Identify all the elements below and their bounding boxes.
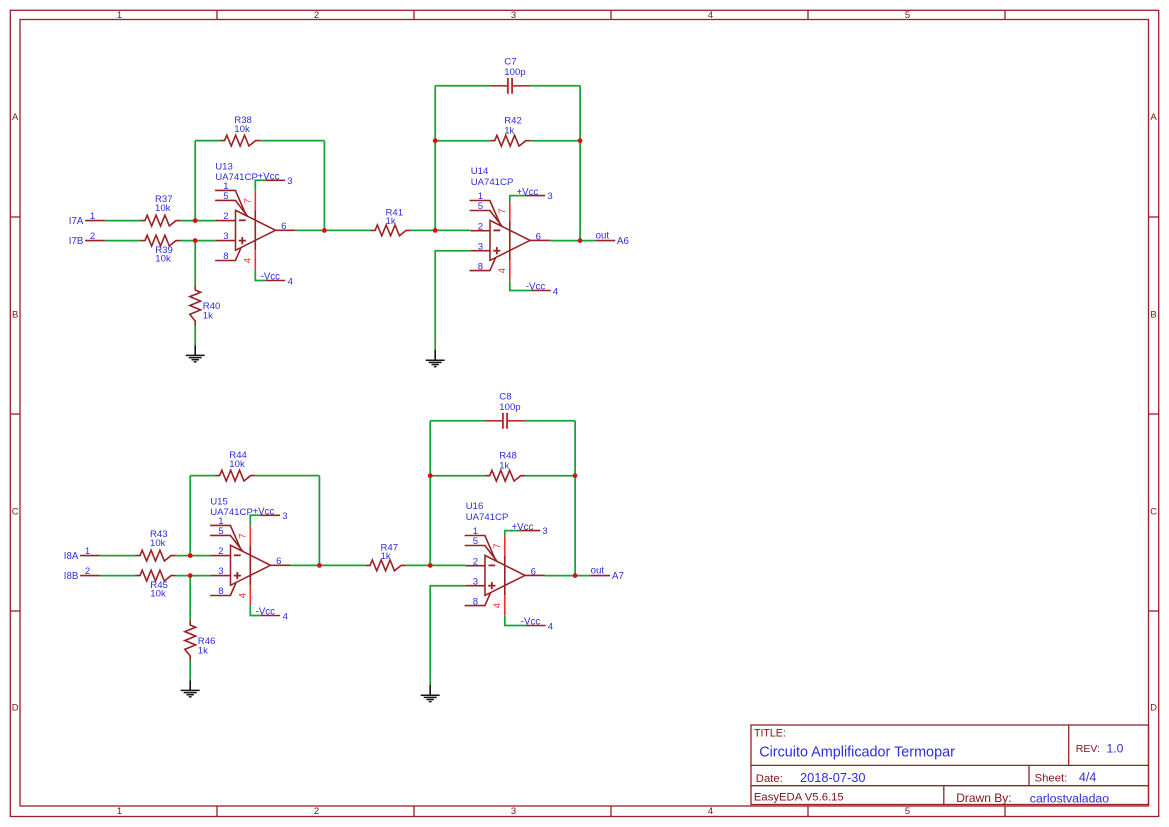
op-amp U13 [215, 162, 295, 271]
svg-text:6: 6 [276, 556, 281, 567]
svg-text:8: 8 [473, 596, 478, 607]
wire [255, 475, 319, 477]
date field [756, 770, 866, 785]
svg-text:I8A: I8A [64, 551, 79, 562]
svg-text:1: 1 [117, 10, 122, 21]
svg-text:4: 4 [492, 602, 503, 608]
svg-text:2: 2 [314, 806, 319, 817]
svg-text:A: A [1150, 112, 1157, 123]
wire [525, 420, 575, 422]
resistor R39 [141, 235, 181, 264]
svg-text:3: 3 [542, 526, 547, 537]
wire [189, 661, 191, 681]
svg-text:4: 4 [283, 611, 289, 622]
svg-text:EasyEDA V5.6.15: EasyEDA V5.6.15 [754, 792, 844, 804]
wire [430, 475, 485, 477]
svg-text:Date:: Date: [756, 773, 783, 785]
resistor R37 [141, 194, 181, 226]
wire [290, 564, 365, 566]
svg-text:7: 7 [492, 543, 503, 548]
svg-text:6: 6 [536, 231, 541, 242]
svg-text:6: 6 [281, 221, 286, 232]
resistor R48 [485, 450, 525, 481]
junction [193, 218, 198, 223]
wire [105, 240, 141, 242]
port +Vcc pin 3 [253, 507, 288, 522]
svg-text:1k: 1k [198, 646, 208, 657]
svg-text:4: 4 [553, 287, 559, 298]
svg-text:1k: 1k [504, 126, 514, 137]
op-amp U16 [465, 501, 545, 615]
op-amp U14 [470, 166, 550, 280]
svg-text:100p: 100p [504, 67, 525, 78]
svg-text:UA741CP: UA741CP [210, 507, 253, 518]
wire [318, 476, 320, 566]
wire [250, 605, 260, 615]
svg-text:2: 2 [473, 556, 478, 567]
svg-text:Sheet:: Sheet: [1035, 773, 1068, 785]
svg-text:C: C [12, 506, 19, 517]
svg-text:-Vcc: -Vcc [261, 271, 281, 282]
svg-text:-Vcc: -Vcc [526, 282, 546, 293]
wire [195, 140, 220, 142]
wire [194, 141, 196, 221]
svg-text:I8B: I8B [64, 571, 79, 582]
rev field [1076, 742, 1124, 756]
svg-text:6: 6 [531, 566, 536, 577]
svg-text:Drawn By:: Drawn By: [956, 791, 1011, 805]
svg-text:4: 4 [708, 806, 713, 817]
column numbers top [117, 10, 910, 21]
wire [189, 576, 191, 621]
svg-text:1.0: 1.0 [1107, 742, 1124, 756]
svg-text:1k: 1k [203, 311, 213, 322]
svg-text:2: 2 [218, 546, 223, 557]
ground [186, 345, 205, 361]
resistor R41 [371, 207, 411, 236]
wire [435, 85, 490, 87]
svg-text:7: 7 [243, 198, 254, 203]
svg-text:A: A [12, 112, 19, 123]
wire [510, 280, 531, 290]
svg-text:3: 3 [547, 191, 552, 202]
svg-text:D: D [1150, 702, 1157, 713]
wire [194, 326, 196, 346]
svg-text:4: 4 [288, 276, 294, 287]
resistor R42 [490, 115, 530, 146]
svg-text:3: 3 [223, 231, 228, 242]
svg-text:1k: 1k [386, 216, 396, 227]
junction [188, 573, 193, 578]
svg-text:U14: U14 [471, 166, 489, 177]
wire [295, 229, 370, 231]
port out net A6 [595, 231, 628, 247]
wire [176, 555, 212, 557]
svg-text:1: 1 [117, 806, 122, 817]
wire [194, 241, 196, 286]
wire [435, 251, 470, 350]
svg-text:-Vcc: -Vcc [256, 606, 276, 617]
svg-text:B: B [12, 309, 18, 320]
svg-text:out: out [596, 231, 610, 242]
wire [530, 140, 580, 142]
svg-text:5: 5 [223, 191, 228, 202]
svg-text:3: 3 [287, 176, 292, 187]
wire [189, 476, 191, 556]
resistor R45 [136, 570, 176, 599]
svg-text:TITLE:: TITLE: [754, 728, 786, 740]
svg-text:10k: 10k [155, 253, 171, 264]
port I7B pin 2 [69, 231, 105, 247]
svg-text:4: 4 [238, 592, 249, 598]
svg-text:carlostvaladao: carlostvaladao [1030, 791, 1109, 805]
svg-text:8: 8 [478, 261, 483, 272]
svg-text:1k: 1k [499, 461, 509, 472]
resistor R40 [190, 286, 221, 326]
resistor R46 [185, 621, 216, 661]
svg-text:5: 5 [905, 806, 910, 817]
wire [545, 575, 591, 577]
ground [426, 350, 445, 367]
wire [100, 575, 136, 577]
wire [260, 140, 324, 142]
sheet field [1035, 771, 1097, 785]
junction [573, 573, 578, 578]
resistor R47 [366, 542, 406, 571]
svg-text:3: 3 [218, 566, 223, 577]
svg-text:4/4: 4/4 [1079, 771, 1097, 785]
wire [181, 240, 217, 242]
svg-text:A7: A7 [612, 571, 624, 582]
svg-text:5: 5 [218, 526, 223, 537]
svg-text:4: 4 [548, 622, 554, 633]
ground [181, 680, 200, 696]
row letters right [1150, 112, 1157, 713]
capacitor C7 [490, 56, 530, 94]
wire [435, 140, 490, 142]
port I8B pin 2 [64, 566, 100, 582]
svg-text:out: out [591, 566, 605, 577]
svg-text:D: D [12, 702, 19, 713]
svg-text:1k: 1k [381, 551, 391, 562]
svg-text:8: 8 [223, 251, 228, 262]
wire [181, 220, 217, 222]
svg-text:UA741CP: UA741CP [471, 177, 514, 188]
svg-text:+Vcc: +Vcc [258, 172, 280, 183]
wire [411, 229, 471, 231]
svg-text:5: 5 [478, 201, 483, 212]
svg-text:10k: 10k [150, 538, 166, 549]
wire [550, 240, 596, 242]
wire [429, 421, 431, 566]
junction [322, 228, 327, 233]
svg-text:UA741CP: UA741CP [466, 512, 509, 523]
resistor R44 [215, 450, 255, 481]
port -Vcc pin 4 [526, 282, 559, 298]
junction [433, 228, 438, 233]
wire [579, 86, 581, 241]
wire [505, 531, 521, 536]
wire [323, 141, 325, 231]
svg-text:10k: 10k [155, 203, 171, 214]
svg-text:U16: U16 [466, 501, 484, 512]
wire [530, 85, 580, 87]
capacitor C8 [485, 391, 525, 429]
wire [406, 564, 466, 566]
wire [510, 196, 526, 201]
svg-text:4: 4 [497, 267, 508, 273]
svg-text:I7B: I7B [69, 236, 84, 247]
svg-text:5: 5 [905, 10, 910, 21]
wire [255, 180, 265, 191]
port out net A7 [590, 566, 623, 582]
svg-text:C7: C7 [504, 56, 516, 67]
resistor R38 [220, 115, 260, 146]
port -Vcc pin 4 [261, 271, 294, 287]
svg-text:C: C [1150, 506, 1157, 517]
junction [428, 563, 433, 568]
svg-text:4: 4 [708, 10, 713, 21]
junction [578, 138, 583, 143]
port +Vcc pin 3 [258, 172, 293, 187]
svg-text:2: 2 [90, 231, 95, 242]
svg-text:I7A: I7A [69, 216, 84, 227]
svg-text:10k: 10k [229, 459, 245, 470]
port +Vcc pin 3 [512, 522, 548, 537]
svg-text:B: B [1150, 309, 1156, 320]
svg-text:4: 4 [243, 257, 254, 263]
junction [193, 238, 198, 243]
frame row ticks [10, 217, 1158, 611]
svg-text:5: 5 [473, 536, 478, 547]
svg-text:-Vcc: -Vcc [521, 617, 541, 628]
port -Vcc pin 4 [521, 617, 554, 633]
drawn by field [956, 791, 1109, 805]
port -Vcc pin 4 [256, 606, 289, 622]
wire [505, 615, 526, 625]
wire [190, 475, 215, 477]
wire [430, 420, 485, 422]
svg-text:8: 8 [218, 586, 223, 597]
svg-text:2: 2 [478, 221, 483, 232]
op-amp U15 [210, 497, 290, 606]
wire [250, 515, 260, 526]
svg-text:2: 2 [314, 10, 319, 21]
junction [317, 563, 322, 568]
svg-text:3: 3 [473, 576, 478, 587]
svg-text:+Vcc: +Vcc [517, 187, 539, 198]
svg-text:Circuito Amplificador Termopar: Circuito Amplificador Termopar [759, 745, 955, 761]
svg-text:2: 2 [223, 211, 228, 222]
junction [433, 138, 438, 143]
wire [434, 86, 436, 231]
wire [430, 586, 465, 685]
svg-text:10k: 10k [150, 588, 166, 599]
wire [105, 220, 141, 222]
wire [176, 575, 212, 577]
junction [428, 473, 433, 478]
junction [578, 238, 583, 243]
svg-text:3: 3 [511, 806, 516, 817]
title block [751, 725, 1149, 805]
svg-text:2: 2 [85, 566, 90, 577]
svg-text:1: 1 [90, 211, 95, 222]
svg-text:UA741CP: UA741CP [215, 172, 258, 183]
svg-text:3: 3 [282, 511, 287, 522]
column numbers bottom [117, 806, 910, 817]
junction [188, 553, 193, 558]
svg-text:A6: A6 [617, 236, 629, 247]
wire [255, 270, 265, 280]
svg-text:REV:: REV: [1076, 743, 1100, 755]
wire [574, 421, 576, 576]
frame column ticks [217, 10, 1005, 816]
svg-text:1: 1 [85, 546, 90, 557]
port +Vcc pin 3 [517, 187, 553, 202]
svg-text:10k: 10k [234, 124, 250, 135]
svg-text:3: 3 [478, 241, 483, 252]
port I7A pin 1 [69, 211, 105, 227]
row letters left [12, 112, 19, 713]
svg-text:C8: C8 [499, 391, 511, 402]
ground [421, 685, 440, 702]
wire [525, 475, 575, 477]
svg-text:2018-07-30: 2018-07-30 [800, 770, 865, 785]
svg-text:7: 7 [497, 208, 508, 213]
resistor R43 [136, 529, 176, 561]
wire [100, 555, 136, 557]
port I8A pin 1 [64, 546, 100, 562]
svg-text:7: 7 [238, 533, 249, 538]
svg-text:+Vcc: +Vcc [512, 522, 534, 533]
svg-text:+Vcc: +Vcc [253, 507, 275, 518]
svg-text:3: 3 [511, 10, 516, 21]
junction [573, 473, 578, 478]
svg-text:100p: 100p [499, 402, 520, 413]
